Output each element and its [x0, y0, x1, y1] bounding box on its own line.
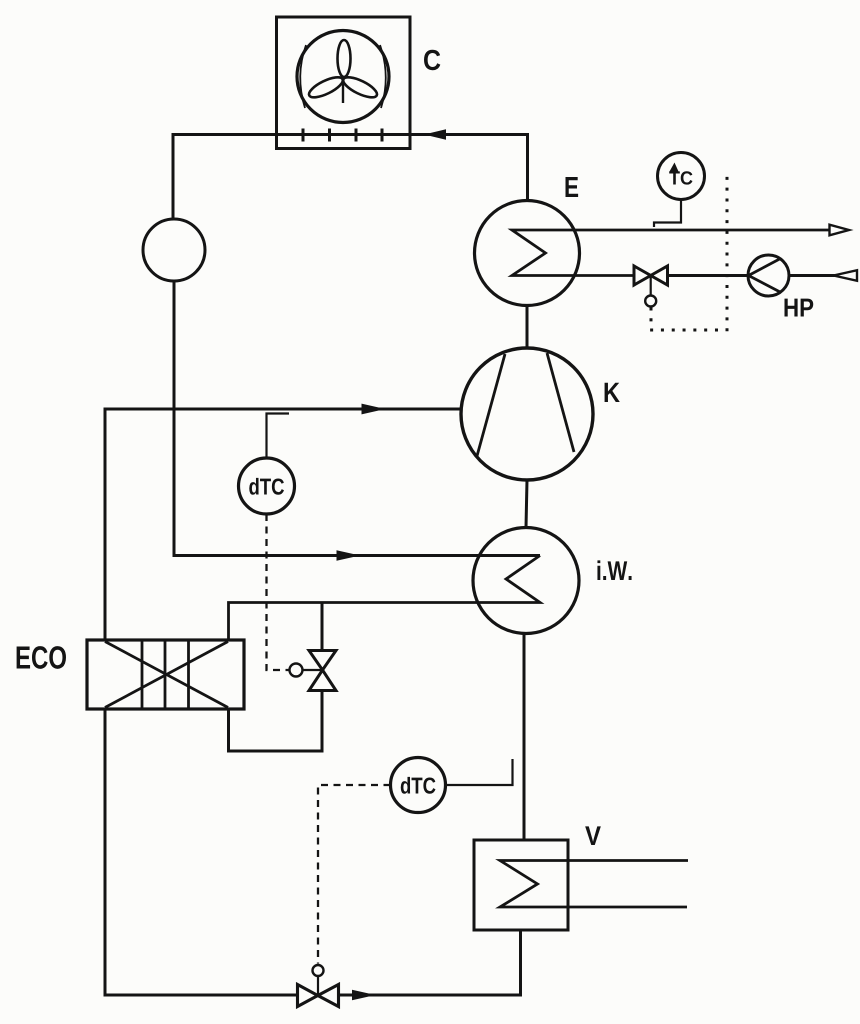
wire receiver to i.W. feed line with coil top [174, 281, 540, 556]
bottom valve actuator circle [313, 965, 324, 976]
label dTC 1 [249, 478, 284, 495]
fan circle [297, 31, 389, 123]
compressor K circle [461, 348, 593, 480]
wire i.W. to V box [523, 634, 526, 841]
ECO valve actuator circle [290, 664, 303, 677]
ECO fin 1 [141, 642, 144, 708]
TC sensor tap [654, 200, 681, 228]
arrow on suction line (filled, pointing right) [362, 404, 386, 415]
water valve near E left triangle [634, 266, 651, 285]
pump HP vane lower [749, 276, 782, 293]
K vane right [547, 353, 574, 452]
wire E to K [526, 306, 529, 349]
label V [585, 826, 601, 845]
air flow tick 3 [355, 129, 358, 142]
fan blade lower-right [341, 73, 380, 101]
expansion valve (ECO) bottom triangle [309, 670, 336, 691]
ECO cross diagonal 1 [105, 642, 228, 708]
label dTC 2 [401, 777, 436, 794]
arrow on bottom line (filled, pointing right) [352, 990, 376, 1001]
dTC 2 sensor tap [446, 759, 513, 785]
arrow on i.W. feed line (filled, pointing right) [337, 550, 361, 561]
condenser C box [277, 17, 411, 149]
dTC 1 control line dashed [267, 514, 290, 670]
controller TC circle [658, 153, 705, 200]
water valve actuator circle [645, 296, 656, 307]
expansion valve (bottom) left triangle [298, 985, 318, 1007]
controller dTC 1 circle [239, 458, 295, 514]
receiver circle [143, 219, 205, 281]
ECO fin 3 [187, 642, 190, 708]
wire bottom line valve to V bottom [339, 930, 521, 995]
E coil sigma [512, 230, 830, 276]
V coil sigma [500, 861, 688, 908]
water valve near E right triangle [651, 266, 668, 285]
fan guard arc left [300, 45, 306, 108]
fan hub stem [342, 80, 344, 103]
air flow tick 4 [381, 129, 384, 142]
wire suction line into K and left riser through ECO down to bottom [105, 409, 461, 995]
label E [566, 177, 579, 197]
wire K to i.W. [526, 480, 527, 528]
label K [605, 383, 620, 402]
air flow tick 1 [302, 129, 305, 142]
open arrow water outlet (pointing right) [830, 225, 850, 236]
fan blade top [338, 40, 351, 77]
wire pump to inlet arrow [789, 274, 835, 277]
air flow tick 2 [328, 129, 331, 142]
evaporator V box [474, 840, 568, 930]
ECO cross diagonal 2 [105, 642, 228, 708]
water valve stem [650, 276, 652, 296]
heat exchanger i.W. circle [473, 528, 579, 634]
wire valve to pump HP [668, 274, 749, 277]
label HP [784, 299, 813, 317]
ECO valve actuator link [303, 669, 323, 671]
open arrow water inlet (pointing left) [834, 270, 858, 281]
label TC [669, 171, 692, 184]
wire ECO loop: valve bottom down, left, up into ECO bottom [229, 691, 323, 752]
wire ECO injection branch: T from i.W. line down to expansion valve [321, 603, 324, 651]
ECO box [87, 640, 244, 709]
pump HP vane upper [749, 259, 781, 276]
dTC 1 sensor tap [267, 414, 290, 459]
controller dTC 2 circle [391, 758, 446, 813]
label C [424, 50, 440, 71]
ECO fin 2 [164, 642, 167, 708]
expansion valve (ECO) top triangle [309, 651, 336, 671]
TC arrow blob [670, 163, 679, 172]
heat exchanger E circle [475, 201, 580, 306]
pump HP circle [748, 255, 789, 296]
fan blade lower-left [306, 73, 345, 101]
arrow into C (filled, pointing left) [424, 129, 446, 140]
wire condenser loop: E top riser, top header through C, left riser down to receiver [173, 135, 528, 220]
fan guard arc right [380, 45, 386, 108]
label ECO [17, 646, 66, 669]
TC control capillary dotted [651, 172, 727, 330]
K vane left [477, 354, 505, 456]
dTC 2 control line dashed [318, 785, 391, 964]
bottom valve actuator stem [317, 976, 319, 995]
label i.W. [597, 560, 631, 580]
i.W. coil sigma [229, 556, 541, 641]
expansion valve (bottom) right triangle [318, 985, 339, 1007]
